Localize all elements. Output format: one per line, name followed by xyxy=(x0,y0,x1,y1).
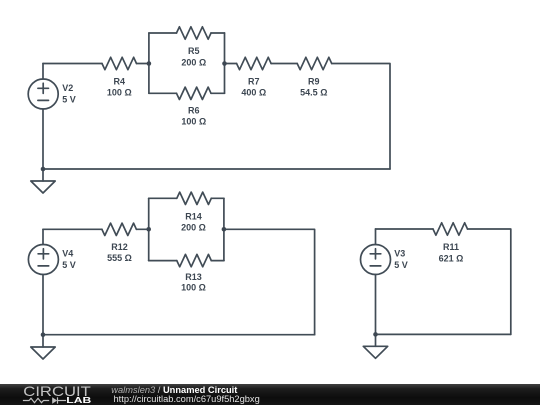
wire: top circuit main horizontal left of R4 xyxy=(43,63,102,65)
svg-text:R11: R11 xyxy=(443,242,459,252)
node gnd1 junction dot xyxy=(41,167,46,172)
svg-text:54.5 Ω: 54.5 Ω xyxy=(300,88,327,98)
svg-text:100 Ω: 100 Ω xyxy=(107,88,132,98)
svg-text:R13: R13 xyxy=(185,272,202,282)
node D junction dot xyxy=(222,227,227,232)
svg-text:R9: R9 xyxy=(308,77,320,87)
resistor R6 xyxy=(177,87,212,99)
wire: R14 branch right lead xyxy=(211,197,224,199)
svg-text:555 Ω: 555 Ω xyxy=(107,253,132,263)
resistor R13 xyxy=(177,254,212,266)
wire: bottom-left circuit main horizontal left of R12 xyxy=(43,228,102,230)
resistor R14 xyxy=(177,192,212,204)
resistor R9 xyxy=(297,57,332,69)
wire: parallel block right vertical xyxy=(224,33,226,93)
ground (top circuit) xyxy=(31,169,55,193)
wire: R11 to right edge and down xyxy=(468,229,511,334)
resistor R7 xyxy=(237,57,272,69)
wire: R9 to top-right corner and down xyxy=(332,64,390,170)
svg-text:621 Ω: 621 Ω xyxy=(439,253,464,263)
wire: bottom-right circuit top horizontal left of R11 xyxy=(376,228,434,230)
svg-text:R12: R12 xyxy=(111,242,128,252)
wire: top branch left lead xyxy=(149,32,177,34)
wire: R4 to node A xyxy=(137,63,149,65)
svg-text:200 Ω: 200 Ω xyxy=(181,222,206,232)
node C junction dot xyxy=(146,227,151,232)
wire: R7 to R9 xyxy=(271,63,297,65)
svg-text:5 V: 5 V xyxy=(394,260,408,270)
resistor R12 xyxy=(102,223,137,235)
wire: bottom branch left lead xyxy=(149,92,177,94)
svg-text:5 V: 5 V xyxy=(62,95,76,105)
node A junction dot xyxy=(147,61,152,66)
ground (bottom-left circuit) xyxy=(31,335,55,359)
wire: parallel block 2 right vertical xyxy=(223,198,225,260)
svg-text:100 Ω: 100 Ω xyxy=(181,283,206,293)
svg-text:R5: R5 xyxy=(188,46,200,56)
resistor R11 xyxy=(433,223,468,235)
wire: top circuit bottom return xyxy=(43,168,390,170)
svg-text:V2: V2 xyxy=(62,83,73,93)
wire: bottom-left circuit bottom return xyxy=(43,334,315,336)
node gnd2 junction dot xyxy=(41,332,46,337)
resistor R4 xyxy=(102,57,137,69)
node B junction dot xyxy=(222,61,227,66)
svg-text:R6: R6 xyxy=(188,106,200,116)
svg-text:V3: V3 xyxy=(394,248,405,258)
wire: R12 to node C xyxy=(136,228,148,230)
svg-text:400 Ω: 400 Ω xyxy=(241,88,266,98)
svg-text:R14: R14 xyxy=(185,212,202,222)
wire: bottom branch right lead xyxy=(211,92,225,94)
ground (bottom-right circuit) xyxy=(363,334,387,358)
CircuitLab logo xyxy=(23,383,91,405)
svg-text:http://circuitlab.com/c67u9f5h: http://circuitlab.com/c67u9f5h2gbxg xyxy=(114,394,260,404)
wire: R13 branch right lead xyxy=(211,260,224,262)
voltage source V2 xyxy=(28,64,58,170)
wire: R13 branch left lead xyxy=(149,260,177,262)
svg-text:LAB: LAB xyxy=(66,395,91,405)
wire: R14 branch left lead xyxy=(149,197,177,199)
voltage source V4 xyxy=(28,229,58,334)
svg-text:5 V: 5 V xyxy=(62,260,76,270)
svg-text:V4: V4 xyxy=(62,248,73,258)
resistor R5 xyxy=(177,27,212,39)
node gnd3 junction dot xyxy=(373,332,378,337)
wire: node B to R7 xyxy=(225,63,237,65)
wire: parallel block left vertical xyxy=(148,33,150,93)
svg-text:R4: R4 xyxy=(114,77,126,87)
voltage source V3 xyxy=(361,229,391,334)
svg-text:200 Ω: 200 Ω xyxy=(181,57,206,67)
wire: parallel block 2 left vertical xyxy=(148,198,150,260)
svg-text:R7: R7 xyxy=(248,77,260,87)
wire: bottom-right circuit bottom return xyxy=(376,333,511,335)
svg-text:100 Ω: 100 Ω xyxy=(181,116,206,126)
wire: top branch right lead xyxy=(211,32,225,34)
wire: node D to right edge and down xyxy=(224,229,315,334)
